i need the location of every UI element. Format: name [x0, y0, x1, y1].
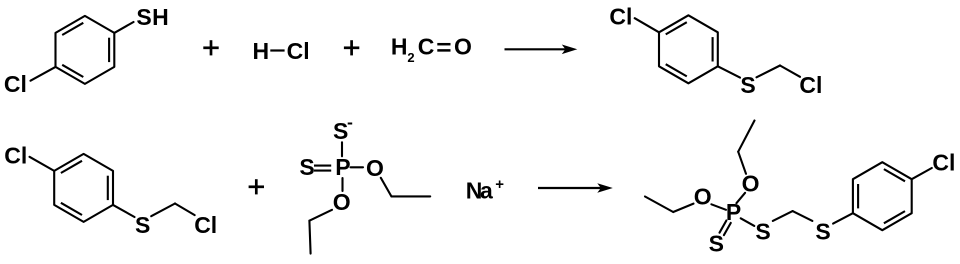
bond ring to S (row2 left) — [113, 205, 135, 217]
svg-text:H: H — [391, 34, 408, 60]
svg-text:Cl: Cl — [194, 212, 217, 238]
bond CH3 to CH2 (left ethyl) — [645, 197, 673, 213]
C=O double bond of formaldehyde — [437, 43, 450, 46]
bond S to ring (carbophenothion) — [833, 213, 853, 223]
bond P to O right (anion) — [351, 166, 364, 168]
svg-text:S: S — [135, 212, 150, 238]
bond P to S (carbophenothion) — [741, 218, 755, 226]
svg-text:O: O — [694, 184, 712, 210]
svg-text:S: S — [740, 72, 755, 98]
bond ring to Cl — [31, 67, 56, 81]
plus sign 3 — [249, 179, 264, 194]
svg-text:H: H — [152, 4, 169, 30]
bond ring to SH — [114, 22, 133, 33]
bond S(top) to P (anion) — [341, 142, 343, 156]
bond O to P (carbophenothion) — [711, 204, 726, 210]
bond S to CH2 (carbophenothion) — [773, 211, 793, 221]
P=S double bond (carbophenothion) — [720, 221, 727, 233]
bond ring to Cl (carbophenothion) — [912, 168, 932, 179]
svg-text:S: S — [709, 230, 724, 256]
bond P to O top (carbophenothion) — [736, 193, 745, 203]
svg-text:Cl: Cl — [4, 71, 27, 97]
bond Cl to ring (row1 product) — [635, 18, 659, 32]
svg-text:O: O — [742, 171, 760, 197]
benzene ring of row1 product — [659, 15, 718, 83]
bond CH2 to Cl (row1 product) — [780, 66, 800, 77]
bond O to CH2 (anion right ethyl) — [381, 178, 392, 197]
bond S to CH2 (row2 left) — [151, 204, 175, 217]
bond CH2 to Cl (row2 left) — [175, 204, 195, 216]
svg-text:S: S — [333, 118, 348, 144]
bond CH2 to CH3 (anion right ethyl) — [391, 195, 430, 197]
svg-text:a: a — [480, 178, 493, 204]
reaction arrow row 1 — [505, 45, 578, 55]
svg-text:Cl: Cl — [287, 38, 310, 64]
svg-text:+: + — [495, 176, 504, 193]
plus sign 1 — [203, 40, 218, 55]
svg-text:S: S — [755, 219, 770, 245]
svg-text:C: C — [418, 34, 435, 60]
bond CH2 to CH3 (top ethyl) — [738, 121, 754, 152]
bond ring to S (row1 product) — [718, 66, 740, 77]
svg-text:H: H — [252, 38, 269, 64]
svg-text:P: P — [726, 199, 741, 225]
bond S to CH2 (row1 product) — [757, 66, 781, 78]
svg-text:Cl: Cl — [4, 142, 27, 168]
plus sign 2 — [344, 40, 359, 55]
bond CH2 to O (left ethyl) — [673, 204, 693, 212]
reaction arrow row 2 — [538, 183, 613, 193]
benzene ring (row2 left molecule) — [54, 154, 113, 222]
svg-text:Cl: Cl — [609, 4, 632, 30]
svg-text:Cl: Cl — [932, 149, 955, 175]
svg-text:S: S — [136, 4, 151, 30]
bond CH2 to S (carbophenothion) — [793, 211, 813, 221]
H-Cl bond — [270, 49, 284, 51]
svg-text:O: O — [454, 34, 472, 60]
bond P to O bottom (anion) — [341, 178, 343, 191]
bond CH2 to CH3 (anion bottom ethyl) — [309, 221, 310, 254]
benzene ring (carbophenothion) — [853, 162, 912, 230]
svg-text:S: S — [299, 154, 314, 180]
bond O to CH2 (top ethyl) — [738, 152, 746, 174]
svg-text:S: S — [815, 219, 830, 245]
benzene ring of 4-chlorothiophenol — [56, 16, 115, 84]
bond Cl to ring (row2 left) — [30, 157, 55, 171]
svg-text:O: O — [333, 189, 351, 215]
svg-text:Cl: Cl — [799, 72, 822, 98]
svg-text:P: P — [335, 154, 350, 180]
svg-text:2: 2 — [407, 50, 414, 65]
S=P double bond (anion) — [314, 165, 331, 167]
bond O to CH2 (anion bottom ethyl) — [309, 210, 332, 221]
minus charge of S- — [348, 123, 353, 125]
